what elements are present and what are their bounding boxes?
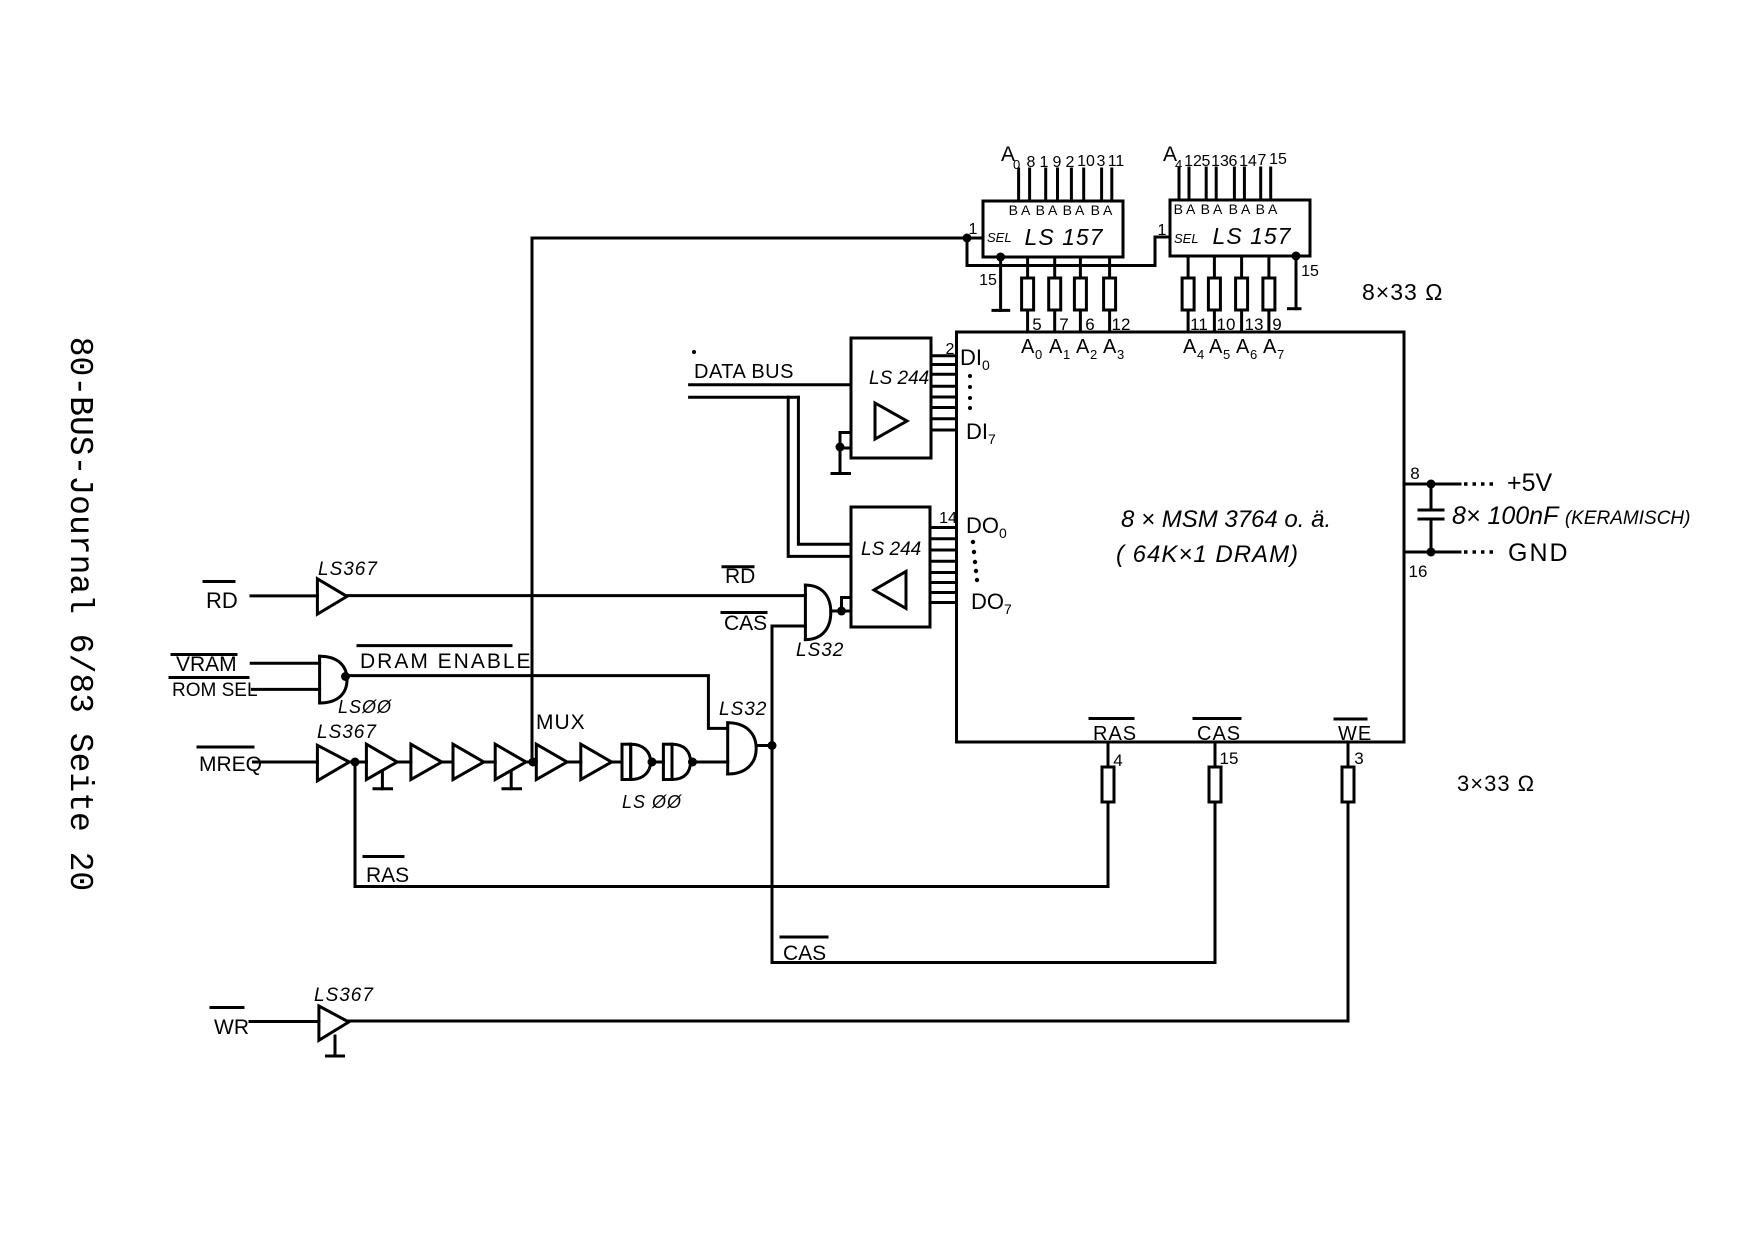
wire data bus line 1: [690, 383, 851, 386]
wire ROM SEL to U15: [252, 688, 319, 691]
wire MUX select to U1 SEL pin: [532, 237, 983, 240]
wire chain segment 5: [526, 761, 536, 764]
svg-text:RD: RD: [725, 565, 755, 588]
buffer U20 LS367 (WR): [319, 1006, 349, 1040]
wire U16 output: [756, 744, 772, 747]
svg-text:A: A: [1209, 336, 1223, 358]
svg-text:15: 15: [979, 272, 997, 289]
U2 input labels: [1163, 143, 1287, 172]
svg-text:A: A: [1021, 336, 1035, 358]
net label CAS: [781, 936, 827, 939]
U2 pin 15 label: [1301, 263, 1319, 280]
resistor RN1e 33R: [1182, 278, 1194, 310]
dotted continuation GND: [1464, 550, 1494, 553]
node U3 enable: [836, 443, 845, 452]
svg-text:1: 1: [1040, 154, 1049, 171]
wire RAS from buffer output down: [354, 762, 357, 887]
DRAM pin 16 GND wire: [1404, 551, 1460, 554]
buffer U14 LS367 (RD): [317, 579, 347, 614]
or-gate U16 LS32 (CAS generate): [728, 723, 757, 774]
U16 label LS32: [719, 699, 767, 720]
svg-text:7: 7: [1277, 347, 1284, 362]
U2 address input wires A4 12 5 13 6 14 7 15: [1179, 168, 1271, 200]
svg-text:0: 0: [1035, 347, 1042, 362]
svg-text:8: 8: [1027, 154, 1036, 171]
pin 16 label: [1409, 562, 1428, 581]
svg-text:SEL: SEL: [987, 230, 1012, 245]
svg-text:LS 244: LS 244: [869, 368, 929, 389]
U2 pin 1 label: [1158, 222, 1167, 239]
svg-text:LS32: LS32: [719, 699, 767, 720]
wire U19 to U16: [691, 761, 728, 764]
svg-text:LS32: LS32: [796, 640, 844, 661]
svg-text:16: 16: [1409, 562, 1428, 581]
svg-text:LS367: LS367: [318, 559, 378, 580]
svg-text:LS367: LS367: [314, 985, 374, 1006]
U18/U19 label LS00: [622, 792, 682, 812]
capacitor value label 8x100nF (KERAMISCH): [1452, 502, 1690, 530]
wire chain segment 3: [442, 761, 453, 764]
wire RD buffered to U13: [347, 594, 805, 597]
wire chain segment 7: [612, 761, 622, 764]
U1 pin 15 ground stub: [993, 257, 1009, 310]
wire WR to buffer: [250, 1020, 319, 1023]
inverter chain delay element 4: [453, 744, 484, 779]
node U13 output: [837, 607, 846, 616]
net label +5V: [1507, 469, 1553, 497]
svg-text:80-BUS-Journal 6/83 Seite 20: 80-BUS-Journal 6/83 Seite 20: [61, 337, 98, 892]
svg-text:LSØØ: LSØØ: [338, 697, 392, 717]
U15 label LS00: [338, 697, 392, 717]
node U19 output: [688, 758, 697, 767]
svg-text:15: 15: [1269, 151, 1287, 168]
U3 enable notch and ground: [832, 433, 851, 474]
pin 15 label: [1220, 749, 1239, 768]
net label ROM SEL: [170, 676, 248, 679]
svg-text:A: A: [1103, 336, 1117, 358]
svg-text:BA: BA: [1091, 202, 1116, 218]
buffer U14 LS367 label: [318, 559, 378, 580]
svg-text:3: 3: [1097, 153, 1106, 170]
wires resistors to DRAM pins 11 10 13 9: [1188, 310, 1269, 332]
label CAS at U13: [722, 611, 766, 614]
svg-text:WE: WE: [1338, 723, 1372, 745]
svg-text:4: 4: [1197, 347, 1204, 362]
svg-text:9: 9: [1053, 154, 1062, 171]
resistor RN1d 33R: [1104, 278, 1116, 310]
DRAM RAS pin label: [1090, 717, 1133, 720]
svg-text:3×33 Ω: 3×33 Ω: [1457, 771, 1535, 796]
page sidebar label "80-BUS-Journal 6/83 Seite 20": [61, 337, 98, 892]
svg-text:A: A: [1076, 336, 1090, 358]
wires DO0..DO7 U4 to DRAM: [930, 528, 957, 603]
net label GND: [1508, 539, 1570, 567]
svg-text:LS 157: LS 157: [1025, 224, 1104, 250]
wire RD to buffer: [251, 594, 317, 597]
svg-text:BA: BA: [1256, 201, 1281, 217]
wire chain segment 4: [484, 761, 495, 764]
DI ellipsis dots: [968, 374, 972, 410]
label 8x33 ohm: [1362, 279, 1443, 305]
resistor RN1a 33R: [1022, 278, 1034, 310]
inverter chain delay element 5: [495, 744, 526, 779]
svg-text:1: 1: [1063, 347, 1070, 362]
net label RAS: [364, 855, 403, 858]
svg-text:0: 0: [1013, 157, 1020, 172]
svg-text:5: 5: [1223, 347, 1230, 362]
multiplexer U2 LS157: [1170, 200, 1310, 256]
U1 address input wires A0 8 1 9 2 10 3 11: [1019, 169, 1112, 201]
ground tie under element 5: [503, 772, 521, 789]
net label VRAM: [172, 653, 236, 656]
resistor RN1g 33R: [1236, 278, 1248, 310]
svg-text:RD: RD: [206, 588, 238, 613]
or-gate U13 LS32 (RD+CAS): [805, 585, 830, 640]
wire U13 output to U4 enable: [831, 610, 851, 613]
U4 enable notch: [842, 598, 852, 612]
multiplexer U1 LS157: [983, 201, 1123, 257]
node RAS takeoff: [351, 758, 360, 767]
DRAM WE pin label: [1335, 718, 1366, 721]
svg-text:1: 1: [1158, 222, 1167, 239]
svg-text:7: 7: [1258, 152, 1267, 169]
svg-text:WR: WR: [214, 1016, 249, 1039]
svg-text:A: A: [1263, 336, 1277, 358]
svg-text:2: 2: [1090, 347, 1097, 362]
wire CAS net vertical: [771, 626, 774, 963]
svg-text:A: A: [1049, 336, 1063, 358]
pin 8 label: [1410, 464, 1419, 483]
pin number labels 5 7 6 12: [1032, 315, 1130, 334]
wire RAS horizontal to R9: [355, 885, 1108, 888]
node SEL junction at U1: [963, 234, 972, 243]
svg-text:15: 15: [1301, 263, 1319, 280]
resistor RN1b 33R: [1049, 278, 1061, 310]
wire CAS horizontal to R10: [772, 961, 1215, 964]
svg-text:VRAM: VRAM: [176, 653, 237, 676]
node U1 pin15: [996, 253, 1005, 262]
DRAM array U5..U12 8x MSM3764: [957, 332, 1405, 742]
nand U19 LS00: [672, 744, 691, 779]
svg-text:RAS: RAS: [1093, 723, 1137, 745]
node U18 output: [648, 758, 657, 767]
wire MUX select vertical: [531, 238, 534, 762]
label 3x33 ohm: [1457, 771, 1535, 796]
resistor RN1c 33R: [1074, 278, 1086, 310]
svg-text:8: 8: [1410, 464, 1419, 483]
svg-text:SEL: SEL: [1174, 231, 1199, 246]
svg-text:11: 11: [1108, 153, 1125, 170]
U1 pin 1 label: [969, 221, 978, 238]
wire RAS resistor down-left: [1107, 802, 1110, 887]
node GND capacitor junction: [1427, 548, 1436, 557]
resistor R11 33R (WE): [1342, 767, 1354, 802]
U4 direction triangle: [874, 571, 906, 608]
svg-text:BA: BA: [1036, 202, 1061, 218]
label DI0: [960, 345, 990, 373]
nand U15 LS00 (DRAM ENABLE): [320, 656, 347, 703]
U3 pin 2 label: [946, 341, 955, 358]
U3 direction triangle: [875, 403, 907, 439]
label RD at U13: [723, 565, 753, 568]
node U2 pin15: [1292, 252, 1301, 261]
wires resistors to DRAM pins 5 7 6 12: [1028, 310, 1110, 332]
svg-text:BA: BA: [1009, 202, 1034, 218]
svg-text:12: 12: [1184, 153, 1202, 170]
node CAS net junction: [768, 741, 777, 750]
wire WE resistor down to WR line: [1347, 802, 1350, 1021]
resistor RN1h 33R: [1263, 278, 1275, 310]
wire VRAM to U15: [251, 662, 319, 665]
label DI7: [966, 419, 996, 447]
svg-text:DATA BUS: DATA BUS: [694, 361, 794, 383]
U1 output wires to resistors: [1028, 257, 1110, 278]
net label MUX: [536, 711, 586, 734]
svg-text:5: 5: [1202, 153, 1211, 170]
wire MREQ to buffer: [254, 761, 318, 764]
wire CAS resistor down-left: [1214, 802, 1217, 963]
svg-text:LS ØØ: LS ØØ: [622, 792, 682, 812]
DRAM pin 3 wire: [1347, 742, 1350, 767]
ground tie under element 2: [374, 772, 392, 789]
svg-text:4: 4: [1175, 157, 1182, 172]
net label RD input: [204, 580, 234, 583]
svg-text:BA: BA: [1229, 201, 1254, 217]
svg-text:GND: GND: [1508, 539, 1570, 567]
svg-text:CAS: CAS: [1197, 723, 1241, 745]
DO ellipsis dots: [971, 540, 979, 582]
U1 pin 15 label: [979, 272, 997, 289]
net label WR: [211, 1006, 243, 1009]
pin 4 label: [1113, 751, 1122, 770]
svg-text:15: 15: [1220, 749, 1239, 768]
svg-text:MREQ: MREQ: [199, 753, 262, 776]
svg-text:A: A: [1236, 336, 1250, 358]
resistor R9 33R (RAS): [1102, 767, 1114, 802]
svg-text:8×33 Ω: 8×33 Ω: [1362, 279, 1443, 305]
svg-text:LS 244: LS 244: [861, 539, 921, 560]
svg-text:2: 2: [1066, 154, 1075, 171]
resistor RN1f 33R: [1208, 278, 1220, 310]
wire DRAM ENABLE to U16: [347, 676, 728, 729]
label DATA BUS: [694, 361, 794, 383]
svg-text:+5V: +5V: [1507, 469, 1553, 497]
buffer U3 LS244 (data in): [851, 338, 931, 458]
ground tie under U20: [327, 1036, 344, 1056]
svg-text:CAS: CAS: [724, 612, 767, 635]
capacitor C1 8x100nF: [1419, 484, 1443, 552]
net label DRAM ENABLE: [358, 644, 511, 647]
svg-text:( 64K×1 DRAM): ( 64K×1 DRAM): [1116, 541, 1299, 568]
DRAM address pin labels A0..A7: [1021, 336, 1284, 362]
buffer U20 LS367 label: [314, 985, 374, 1006]
wire U18 to U19: [651, 761, 664, 764]
inverter chain delay element 6: [536, 744, 567, 779]
svg-text:BA: BA: [1063, 202, 1088, 218]
buffer U17 LS367 (MREQ): [317, 745, 349, 780]
DRAM CAS pin label: [1194, 717, 1240, 720]
pin number labels 11 10 13 9: [1190, 315, 1282, 334]
svg-text:DRAM ENABLE: DRAM ENABLE: [360, 650, 533, 673]
wire data bus line 2: [690, 396, 799, 399]
nand U18 LS00: [631, 744, 651, 779]
svg-text:14: 14: [1239, 153, 1257, 170]
label DO7: [971, 589, 1012, 617]
U13 label LS32: [796, 640, 844, 661]
svg-text:RAS: RAS: [366, 864, 409, 887]
nand U18 LS00 input bar: [622, 744, 631, 779]
resistor R10 33R (CAS): [1209, 767, 1221, 802]
node MUX takeoff: [528, 758, 537, 767]
label DO0: [966, 513, 1007, 541]
svg-text:A: A: [1183, 336, 1197, 358]
nand U19 LS00 input bar: [663, 744, 672, 779]
svg-text:LS 157: LS 157: [1213, 223, 1292, 249]
wire data bus drop to U4 (inner): [798, 397, 851, 544]
svg-text:MUX: MUX: [536, 711, 586, 734]
svg-text:ROM SEL: ROM SEL: [172, 680, 258, 701]
stray ink mark: [692, 350, 696, 354]
DRAM pin 4 wire: [1107, 742, 1110, 767]
svg-text:LS367: LS367: [317, 722, 377, 743]
buffer U4 LS244 (data out): [851, 507, 930, 627]
wire data bus drop to U4 (outer): [788, 397, 851, 556]
wire chain segment 1: [349, 761, 366, 764]
svg-text:3: 3: [1117, 347, 1124, 362]
svg-text:BA: BA: [1174, 201, 1199, 217]
inverter chain delay element 2: [366, 744, 397, 779]
svg-text:6: 6: [1250, 347, 1257, 362]
wire CAS to U13 input: [772, 625, 805, 628]
pin 3 label: [1354, 749, 1363, 768]
wire chain segment 2: [397, 761, 411, 764]
net label MREQ: [198, 746, 253, 749]
svg-text:8 × MSM 3764 o. ä.: 8 × MSM 3764 o. ä.: [1121, 506, 1331, 533]
dotted continuation +5V: [1464, 482, 1494, 485]
svg-text:6: 6: [1229, 153, 1238, 170]
U2 output wires to resistors: [1188, 256, 1269, 278]
svg-text:BA: BA: [1201, 201, 1226, 217]
svg-text:3: 3: [1354, 749, 1363, 768]
inverter chain delay element 3: [411, 744, 442, 779]
U1 input labels: [1001, 143, 1124, 172]
wires DI0..DI7 U3 to DRAM: [931, 356, 957, 430]
inverter chain delay element 7: [581, 744, 612, 779]
svg-text:10: 10: [1077, 153, 1095, 170]
wire WR buffered to R11 (WE): [349, 1020, 1348, 1023]
svg-text:13: 13: [1211, 153, 1229, 170]
DRAM pin 15 wire: [1214, 742, 1217, 767]
svg-text:14: 14: [939, 510, 957, 527]
node U15 output: [341, 672, 350, 681]
DRAM pin 8 +5V wire: [1404, 483, 1460, 486]
wire SEL jog from U1 to U2: [967, 237, 1170, 266]
buffer U17 LS367 label: [317, 722, 377, 743]
node +5V capacitor junction: [1427, 480, 1436, 489]
wire chain segment 6: [567, 761, 581, 764]
U2 pin 15 ground stub: [1289, 256, 1301, 309]
U4 pin 14 label: [939, 510, 957, 527]
